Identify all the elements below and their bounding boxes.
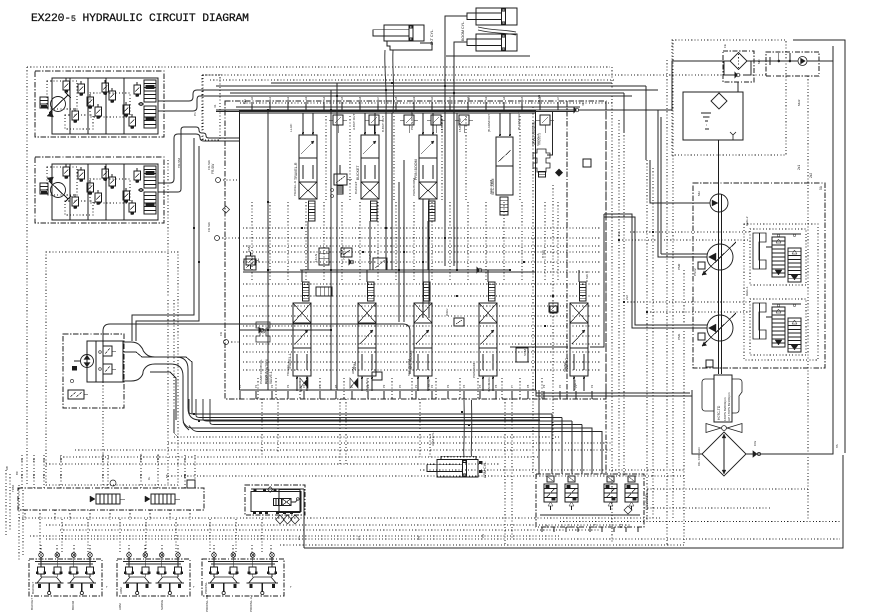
dotted vertical x808	[807, 76, 809, 520]
svg-text:T8: T8	[32, 458, 36, 462]
dotted h y476	[168, 475, 684, 477]
svg-text:TO.5A: TO.5A	[139, 454, 143, 462]
svg-text:P2: P2	[270, 384, 274, 388]
svg-text:PB: PB	[59, 458, 63, 462]
main pump 2	[707, 244, 733, 270]
svg-text:ARM CYL.: ARM CYL.	[431, 431, 435, 446]
svg-text:P5: P5	[417, 536, 421, 540]
svg-text:P4: P4	[462, 384, 466, 388]
port tick bottom x576	[575, 391, 577, 399]
wire block long vertical 1	[330, 90, 332, 390]
wire pump1 delivery	[604, 214, 707, 328]
svg-text:PSV2: PSV2	[693, 268, 697, 276]
rail stubs top	[21, 455, 23, 488]
dotted boundary left vertical	[26, 67, 28, 485]
dotted interior h y272	[243, 271, 600, 273]
pilot dotted bus 2	[202, 74, 768, 76]
dotted boundary y545	[280, 544, 684, 546]
wire bundle drop 4	[581, 425, 583, 475]
svg-text:SWING: SWING	[563, 361, 567, 372]
return filter diamond	[730, 53, 747, 70]
wire arm cyl up	[463, 400, 466, 456]
wire boom cyl down	[445, 16, 467, 113]
svg-text:ARM CYL.: ARM CYL.	[483, 461, 487, 478]
port circle FR.SW	[216, 178, 221, 183]
valve aux	[489, 282, 496, 301]
port tick bottom x240	[239, 391, 241, 399]
dotted group drops	[40, 545, 42, 555]
dotted interior h y306	[243, 305, 600, 307]
svg-text:AB: AB	[5, 466, 9, 470]
wire bus drop x624b	[623, 93, 625, 132]
main valve inner dash-dot vertical	[566, 101, 568, 399]
pump control valve 2	[533, 149, 550, 172]
svg-text:A3: A3	[484, 96, 488, 100]
wire interrow x308	[307, 221, 309, 270]
main block top port line	[240, 112, 537, 114]
dotted h y450	[75, 449, 612, 451]
port tick bottom x448	[447, 391, 449, 399]
wire swing feed	[510, 346, 568, 348]
svg-text:A4: A4	[322, 96, 326, 100]
dotted interior v x342	[341, 202, 343, 280]
dotted interior v x270	[269, 202, 271, 280]
wire boom cyl link	[478, 27, 516, 32]
bus y90	[210, 89, 658, 91]
svg-text:A5: A5	[340, 96, 344, 100]
wire stub bot valve x293	[301, 270, 303, 282]
dotted horizontal y240	[619, 239, 750, 241]
svg-text:BOOM CYL.: BOOM CYL.	[461, 21, 465, 41]
dotted h y530	[60, 529, 600, 531]
shockless rail dash-dot box	[18, 488, 204, 510]
svg-text:VALVE-1: VALVE-1	[264, 371, 268, 384]
pilot control group arm/swing	[117, 559, 190, 596]
svg-text:PROPEL: PROPEL	[204, 581, 208, 594]
rail circle	[110, 480, 116, 486]
svg-text:TRAVEL-L: TRAVEL-L	[286, 361, 290, 376]
wire x658 vertical	[657, 110, 659, 257]
cooling fan	[706, 424, 721, 433]
bus y86	[216, 85, 646, 87]
dotted interior v2 x520	[519, 378, 521, 399]
wire stub top valve x419	[422, 113, 424, 135]
pressure reducing valve mid	[316, 287, 332, 296]
port tick bottom x592	[591, 391, 593, 399]
valve main boom	[419, 135, 437, 182]
valve arm	[368, 282, 375, 301]
dotted horizontal y229	[630, 231, 750, 233]
svg-text:A1: A1	[448, 96, 452, 100]
svg-text:ARM: ARM	[351, 367, 355, 374]
valve secondary boom	[424, 282, 431, 301]
dotted vertical x653	[652, 168, 654, 520]
wire return to cooler	[536, 390, 692, 396]
anticav check 2	[300, 378, 304, 388]
wire bundle 3	[203, 399, 572, 421]
dotted interior v3 x394	[393, 116, 395, 200]
port tick bottom x320	[319, 391, 321, 399]
wire bundle drop 2	[561, 418, 563, 475]
dotted interior v x432	[431, 202, 433, 280]
svg-text:BA: BA	[42, 458, 46, 462]
wire swing to pump	[590, 214, 604, 347]
port tick top x342	[341, 102, 343, 110]
bus y103	[240, 102, 612, 104]
dotted interior v3 x520	[519, 116, 521, 200]
wire filter to tank	[737, 82, 739, 92]
wire bundle 2	[196, 399, 562, 418]
dotted interior v x558	[557, 202, 559, 280]
dotted vertical x168b	[167, 300, 169, 485]
left margin marks	[5, 470, 7, 535]
wire pilot supply P1	[123, 342, 540, 420]
svg-text:PUMP CONTROL: PUMP CONTROL	[531, 121, 535, 146]
dotted vertical x647	[646, 160, 648, 520]
svg-text:TR: TR	[59, 474, 63, 478]
solenoid valve 2	[568, 476, 575, 482]
pilot control group travel	[202, 559, 284, 596]
pilot cap valve 3	[404, 115, 414, 125]
dotted bottom boundary y520	[560, 521, 840, 523]
solenoid valve 4	[628, 476, 635, 482]
valve swing	[580, 282, 587, 301]
diamond port	[223, 206, 230, 213]
port tick bottom x288	[287, 391, 289, 399]
square node x584	[583, 159, 591, 167]
svg-text:FR SW: FR SW	[207, 222, 211, 232]
svg-text:7.INT.LK: 7.INT.LK	[342, 247, 346, 260]
dotted interior v x486	[485, 202, 487, 280]
port tick top x504	[503, 102, 505, 110]
junction dots	[267, 109, 269, 111]
svg-text:A9: A9	[412, 96, 416, 100]
regulator dotted boundary	[744, 224, 818, 360]
port tick bottom x544	[543, 391, 545, 399]
wire bundle 1	[189, 399, 552, 414]
svg-text:A2: A2	[349, 100, 353, 104]
main pressure bus heavy	[216, 109, 574, 111]
svg-text:41: 41	[213, 104, 217, 108]
wire bundle 4	[210, 399, 582, 425]
dotted interior h2 y246	[243, 245, 600, 247]
valve travel-right	[299, 135, 317, 182]
svg-text:P1: P1	[193, 112, 197, 116]
wire boom lines in block	[444, 113, 446, 266]
dotted left column	[18, 485, 20, 560]
accumulator	[319, 248, 329, 265]
svg-text:REG-2: REG-2	[745, 216, 749, 226]
port tick top x378	[377, 102, 379, 110]
wire block long vertical 3	[267, 110, 269, 390]
pump unit dash-dot boundary	[693, 183, 825, 368]
wire pilot A port 2	[158, 96, 230, 111]
dotted interior v x396	[395, 202, 397, 280]
wire mid double	[243, 271, 535, 273]
solenoid block2 valve	[274, 499, 282, 506]
port tick bottom x416	[415, 391, 417, 399]
svg-text:CMV: CMV	[247, 244, 251, 252]
svg-text:VALVE SOL.: VALVE SOL.	[645, 492, 649, 510]
wire bundle 5	[183, 422, 592, 428]
tank oil level hatch	[701, 112, 711, 114]
svg-text:TR: TR	[32, 474, 36, 478]
svg-text:TRAVEL-R: TRAVEL-R	[294, 162, 298, 180]
wire block long vertical 2	[336, 83, 338, 390]
wire stub top valve x361	[364, 113, 366, 135]
arm cylinder	[437, 460, 478, 478]
dotted boundary vertical x202	[201, 75, 203, 140]
drv valve	[244, 259, 256, 270]
svg-text:P9: P9	[542, 384, 546, 388]
wire bundle drop 3	[571, 421, 573, 474]
dotted drops to groups	[39, 519, 41, 552]
mid band glyph 4	[549, 303, 558, 312]
solenoid block2 body	[251, 492, 301, 512]
svg-text:WRU: WRU	[445, 309, 449, 316]
dotted interior h y238	[243, 237, 600, 239]
dotted interior h y336	[243, 335, 600, 337]
wire stub top valve x299	[302, 113, 304, 135]
bus y93	[230, 92, 624, 94]
dotted h y525	[46, 524, 630, 526]
wire interior v x457	[456, 113, 458, 270]
port stub dotted	[220, 179, 239, 181]
svg-text:BUCKET: BUCKET	[356, 165, 360, 180]
svg-text:PA: PA	[20, 458, 24, 462]
port tick bottom x432	[431, 391, 433, 399]
block small square	[454, 318, 464, 326]
svg-text:PUMP CONTROL: PUMP CONTROL	[259, 359, 263, 384]
main relief valve	[246, 256, 255, 265]
dotted vertical x545	[532, 107, 534, 474]
dotted interior v x504	[503, 202, 505, 280]
wire interrow x370	[369, 221, 371, 270]
dotted vertical x684	[683, 270, 685, 545]
svg-text:1 BK LF: 1 BK LF	[427, 379, 431, 390]
svg-text:ARM: ARM	[119, 587, 123, 594]
svg-text:TR: TR	[139, 474, 143, 478]
pilot valve unit B (right control valve)	[35, 157, 164, 223]
dotted interior v x360	[359, 202, 361, 280]
wire bundle drop 5	[585, 428, 592, 474]
port tick top x558	[557, 102, 559, 110]
svg-text:PRIN.BOOM: PRIN.BOOM	[412, 178, 416, 196]
pilot relief 1	[103, 346, 112, 356]
pilot cap valve 1	[333, 115, 343, 125]
dotted interior v2 x258	[257, 378, 259, 399]
svg-text:[B.ARM OUT]: [B.ARM OUT]	[517, 111, 521, 130]
svg-text:T: T	[193, 585, 195, 589]
dotted interior h y326	[243, 325, 600, 327]
svg-text:P3: P3	[286, 384, 290, 388]
mid band glyph 3	[478, 268, 482, 272]
shock valve 1	[96, 494, 120, 504]
svg-text:SWING: SWING	[160, 599, 164, 610]
make-up pump circle	[798, 57, 807, 66]
mid band glyph 1	[341, 248, 352, 257]
wire pilot B port 1	[158, 134, 239, 183]
tank drain	[690, 139, 700, 141]
dotted interior h y362	[243, 361, 600, 363]
dotted h y437	[174, 410, 178, 437]
heavy bus double	[216, 111, 574, 113]
dotted interior v x450	[449, 202, 451, 280]
dotted vertical x673	[672, 40, 674, 520]
svg-text:PROPEL LH: PROPEL LH	[249, 595, 253, 612]
port tick top x414	[413, 102, 415, 110]
anticav check 1	[350, 378, 354, 388]
dotted interior v x468	[467, 202, 469, 280]
svg-text:P7: P7	[510, 384, 514, 388]
PSV square 2	[698, 262, 705, 269]
tank breather	[730, 132, 736, 140]
rail stubs bottom	[24, 510, 26, 520]
wire return to filter	[578, 61, 730, 110]
svg-text:CW: CW	[753, 441, 757, 446]
svg-text:BUCKET: BUCKET	[31, 582, 35, 594]
dotted interior h y352	[243, 351, 600, 353]
svg-text:P1: P1	[254, 384, 258, 388]
svg-text:TR5A: TR5A	[11, 485, 15, 492]
svg-text:TR.9A: TR.9A	[101, 454, 105, 462]
svg-text:EX220-5 HYDRAULIC CIRCUIT DIAG: EX220-5 HYDRAULIC CIRCUIT DIAGRAM	[31, 13, 249, 25]
dotted interior v x306	[305, 202, 307, 280]
valve secondary arm body	[496, 137, 513, 195]
svg-text:P0: P0	[558, 384, 562, 388]
dotted interior v2 x502	[501, 378, 503, 399]
port tick top x432	[431, 102, 433, 110]
svg-text:BC: BC	[15, 471, 19, 475]
bus y96	[216, 95, 632, 97]
port tick top x522	[521, 102, 523, 110]
wire cooler out	[746, 46, 833, 454]
dotted box pilot lines left	[46, 252, 178, 485]
dotted sol unit links	[644, 488, 808, 490]
port tick bottom x384	[383, 391, 385, 399]
pilot dotted bus 3	[210, 79, 614, 81]
svg-text:A0: A0	[430, 96, 434, 100]
dotted interior v x545	[544, 202, 546, 280]
svg-text:2x2: 2x2	[625, 295, 629, 300]
svg-text:A7: A7	[376, 96, 380, 100]
svg-text:SEC.ARM: SEC.ARM	[489, 179, 493, 194]
svg-text:REG-1: REG-1	[745, 286, 749, 296]
valve bucket	[361, 135, 379, 182]
svg-text:TR: TR	[42, 474, 46, 478]
below block dotted verticals	[261, 399, 263, 460]
bus y83	[271, 82, 612, 84]
dotted interior v2 x436	[435, 378, 437, 399]
pilot cap valve 2	[369, 115, 379, 125]
svg-text:P5: P5	[478, 384, 482, 388]
svg-text:PR1N.BOOM: PR1N.BOOM	[410, 111, 414, 130]
svg-text:P1: P1	[297, 536, 301, 540]
svg-text:SHM: SHM	[523, 349, 527, 356]
wire cooler in	[692, 390, 702, 454]
svg-text:PRIN.BOOM: PRIN.BOOM	[414, 159, 418, 180]
svg-text:TR: TR	[101, 474, 105, 478]
svg-text:BUCKET: BUCKET	[354, 181, 358, 194]
svg-text:P9: P9	[382, 384, 386, 388]
svg-text:LT.BM UP: LT.BM UP	[440, 118, 444, 132]
dotted vertical pair x505	[504, 399, 506, 545]
svg-text:A6: A6	[358, 96, 362, 100]
dotted h y457	[60, 456, 540, 458]
wire bundle 6	[189, 426, 602, 432]
PSV square 1	[698, 333, 705, 340]
make-up glyph	[769, 57, 771, 65]
dotted bottom boundary y539	[46, 538, 840, 540]
check mid 1	[260, 328, 264, 332]
port tick bottom x400	[399, 391, 401, 399]
solenoid valve 1	[547, 476, 554, 482]
cooler check valve	[753, 451, 757, 457]
svg-text:P8: P8	[526, 384, 530, 388]
port tick bottom x496	[495, 391, 497, 399]
wire stub bot valve x570	[578, 270, 580, 282]
dotted vertical x619	[618, 120, 620, 476]
block square 2	[516, 348, 528, 362]
svg-text:14 AUX A: 14 AUX A	[368, 250, 372, 264]
svg-text:VALVE-1: VALVE-1	[269, 371, 273, 384]
svg-text:BKT CYL.: BKT CYL.	[430, 29, 434, 45]
svg-text:ARM: ARM	[118, 603, 122, 610]
dotted vertical x553	[552, 185, 554, 440]
boom cylinder 1	[476, 8, 517, 25]
pilot cap valve 6	[540, 115, 550, 125]
svg-text:PROPEL RH: PROPEL RH	[205, 595, 209, 612]
dotted vertical x174b	[173, 300, 175, 420]
wire top-right corner	[793, 40, 845, 453]
check valve end of bus	[575, 108, 579, 112]
dotted interior h2 y316	[243, 315, 600, 317]
solenoid unit bottom bus	[540, 514, 640, 516]
dotted vertical x624	[623, 132, 625, 476]
pilot control group bucket/boom	[29, 559, 102, 596]
wire pilot B port 2	[158, 127, 239, 192]
port tick top x324	[323, 102, 325, 110]
bucket cylinder	[384, 25, 424, 41]
svg-text:PM2: PM2	[677, 263, 681, 270]
mid band glyph 2	[372, 372, 382, 380]
dotted interior v x324	[323, 202, 325, 280]
hydraulic tank	[683, 92, 743, 140]
dotted h y536	[30, 535, 560, 537]
svg-text:LL.RF: LL.RF	[289, 123, 293, 132]
port tick bottom x352	[351, 391, 353, 399]
dotted interior h y262	[243, 261, 600, 263]
port tick bottom x304	[303, 391, 305, 399]
wire bus drop x646	[645, 86, 647, 160]
pilot cap valve 4	[431, 115, 441, 125]
port tick bottom x528	[527, 391, 529, 399]
regulator pump1	[750, 299, 806, 355]
dotted interior v2 x320	[319, 378, 321, 399]
dotted vertical x612	[611, 67, 613, 544]
svg-text:MU: MU	[243, 99, 247, 104]
solenoid block2 right wire	[303, 489, 305, 548]
svg-text:9 LE: 9 LE	[299, 386, 303, 392]
port tick bottom x272	[271, 391, 273, 399]
solenoid unit bottom ticks	[541, 527, 543, 532]
dotted interior v2 x368	[367, 378, 369, 399]
wire pilot pump delivery	[650, 160, 710, 203]
port tick top x270	[269, 102, 271, 110]
svg-text:P5: P5	[318, 384, 322, 388]
svg-text:TRAVEL-R: TRAVEL-R	[293, 180, 297, 196]
dotted interior h y252	[243, 251, 600, 253]
